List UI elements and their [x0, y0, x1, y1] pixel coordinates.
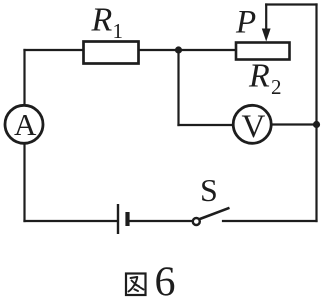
- svg-text:1: 1: [113, 19, 124, 43]
- svg-text:P: P: [235, 5, 256, 41]
- switch S lever: [199, 208, 230, 220]
- svg-text:V: V: [242, 109, 266, 145]
- battery long plate (positive): [117, 204, 119, 234]
- wire voltmeter right horizontal: [272, 123, 317, 125]
- svg-text:R: R: [91, 2, 113, 39]
- wire bottom middle (battery to switch): [130, 220, 193, 222]
- ammeter A: [5, 105, 43, 143]
- wire slider top horizontal: [266, 3, 316, 5]
- wire top-left horizontal: [25, 49, 85, 51]
- switch S pivot circle: [193, 218, 200, 225]
- svg-text:S: S: [200, 172, 218, 208]
- svg-text:R: R: [248, 58, 270, 95]
- battery short plate (negative): [125, 212, 129, 226]
- resistor R1: [84, 42, 139, 64]
- rheostat R2: [236, 43, 290, 60]
- svg-text:6: 6: [155, 260, 176, 304]
- svg-text:A: A: [14, 107, 37, 142]
- slider arrow P: [262, 29, 271, 42]
- node junction right (voltmeter to right rail): [313, 121, 320, 128]
- wire voltmeter branch horizontal left: [179, 124, 234, 126]
- wire voltmeter branch vertical: [177, 50, 179, 125]
- wire slider vertical: [265, 5, 267, 31]
- wire top middle horizontal (R1 right to R2 left): [138, 49, 236, 51]
- node junction left (top wire): [175, 46, 182, 53]
- caption character 图 (drawn): [126, 274, 146, 296]
- wire bottom right horizontal: [223, 220, 317, 222]
- wire left vertical lower: [23, 145, 25, 222]
- wire right vertical: [315, 5, 317, 222]
- wire bottom left horizontal: [25, 220, 118, 222]
- voltmeter V: [233, 105, 271, 143]
- wire left vertical upper: [23, 50, 25, 105]
- svg-text:2: 2: [271, 75, 282, 99]
